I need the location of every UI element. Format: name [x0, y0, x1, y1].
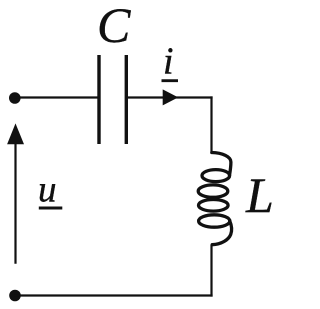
current arrowhead i — [163, 89, 179, 105]
inductor L1 loop 2 — [198, 185, 228, 197]
voltage arrow u shaft — [14, 143, 16, 264]
inductor L1 top hook — [212, 153, 231, 176]
wire right vertical lower — [210, 245, 212, 297]
wire right vertical upper — [210, 96, 212, 152]
svg-text:L: L — [245, 167, 274, 223]
inductor L1 loop 1 — [202, 170, 230, 182]
voltage arrowhead u — [7, 123, 24, 144]
svg-text:i: i — [163, 41, 174, 83]
underline of label i — [162, 79, 179, 82]
node dot top-left — [9, 92, 21, 104]
wire top-left horizontal — [14, 96, 99, 98]
inductor L1 loop 3 — [199, 200, 229, 212]
capacitor C1 right plate — [125, 55, 128, 144]
inductor L1 bottom hook — [212, 221, 231, 245]
underline of label u — [39, 207, 63, 210]
node dot bottom-left — [9, 290, 21, 302]
wire bottom horizontal — [14, 294, 213, 296]
wire top-right horizontal — [126, 96, 212, 98]
svg-text:C: C — [97, 0, 131, 53]
capacitor C1 left plate — [97, 55, 100, 144]
inductor L1 loop 4 — [199, 215, 230, 227]
svg-text:u: u — [38, 170, 57, 211]
